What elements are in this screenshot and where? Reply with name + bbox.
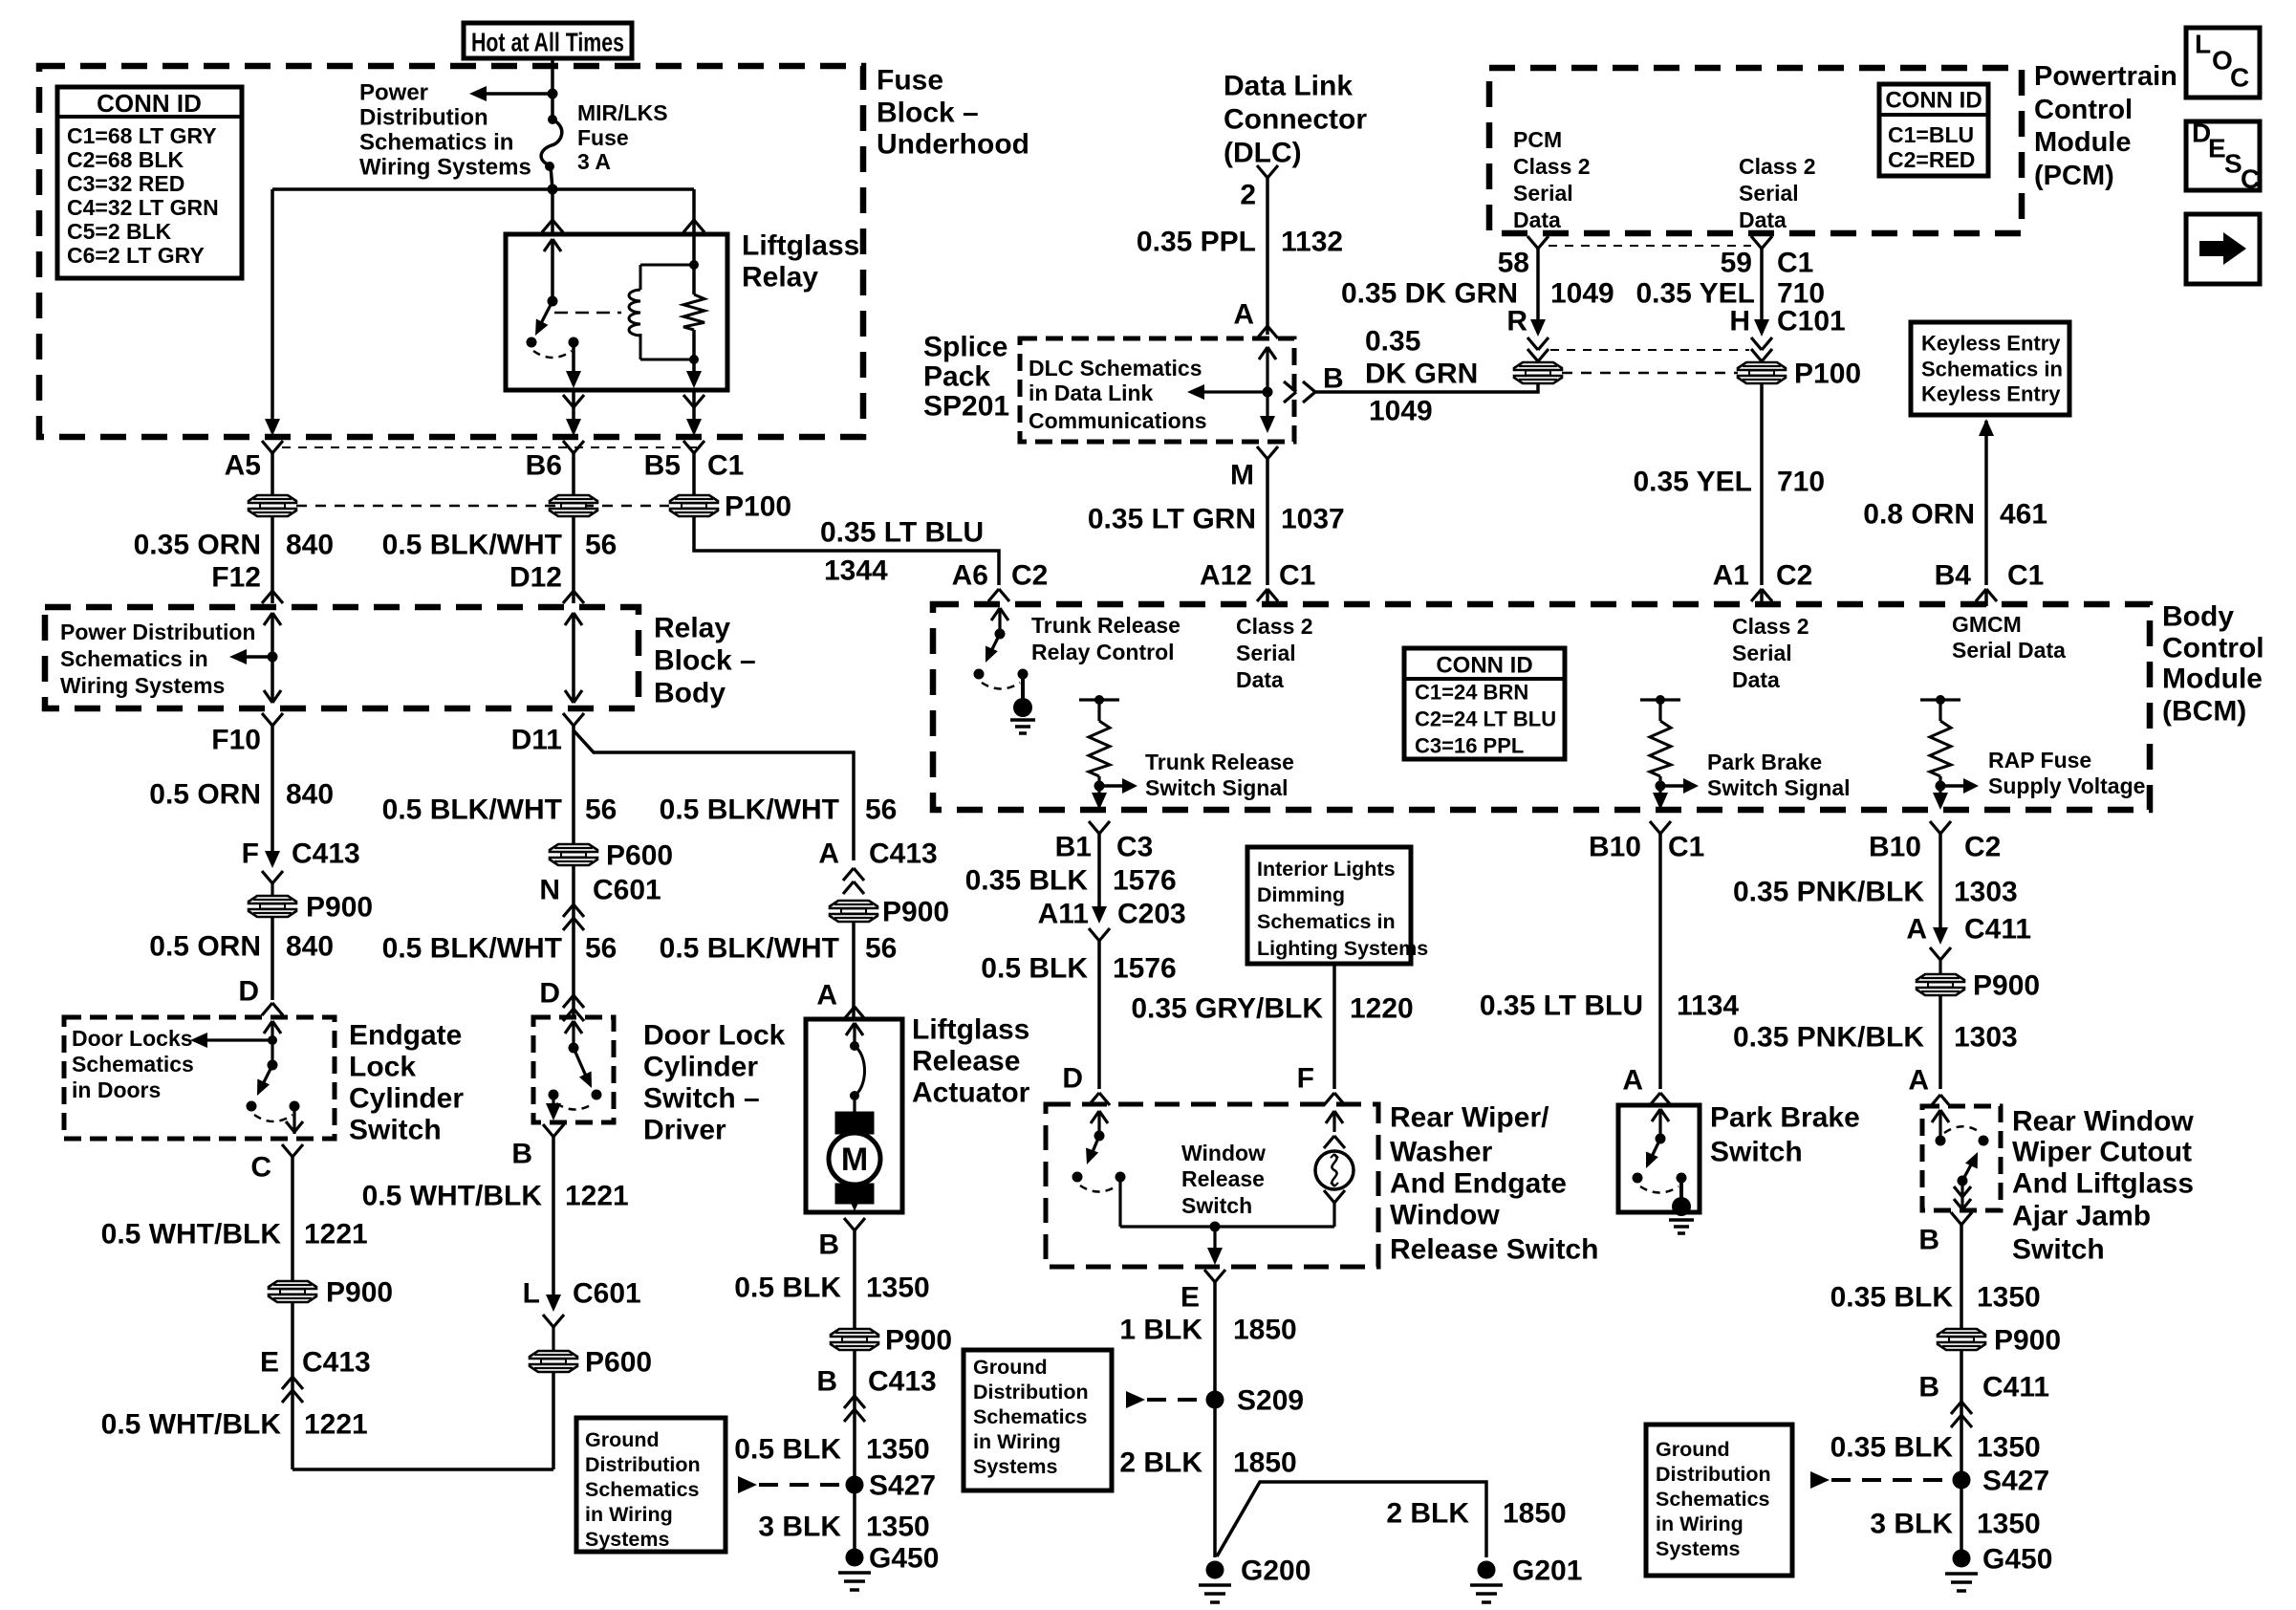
svg-text:Serial: Serial [1732,641,1792,665]
arrow to power distribution reference [469,86,487,101]
svg-text:0.35 BLK: 0.35 BLK [1830,1282,1954,1314]
wire 710 down to BCM [1760,382,1764,585]
window release switch blade [1090,1136,1099,1159]
svg-text:0.5 ORN: 0.5 ORN [149,779,261,811]
connector half A park brake [1650,1093,1660,1105]
svg-text:Rear Window: Rear Window [2012,1106,2194,1138]
svg-text:G201: G201 [1512,1556,1582,1587]
driver switch NO contact [592,1090,602,1100]
arrow into C101 R [1530,319,1546,337]
arrow relay right output [686,371,702,388]
arrow into C101 H [1754,319,1769,337]
svg-text:1132: 1132 [1281,227,1343,258]
svg-text:C413: C413 [292,838,360,870]
svg-text:1303: 1303 [1954,1022,2018,1054]
svg-text:Class 2: Class 2 [1732,614,1809,639]
connector half A actuator [844,1007,855,1019]
svg-text:A: A [816,980,837,1012]
svg-text:Distribution: Distribution [359,105,488,131]
connector half relay input right [683,220,694,232]
svg-text:in Wiring: in Wiring [1656,1512,1744,1535]
svg-text:0.35 LT GRN: 0.35 LT GRN [1088,504,1256,535]
svg-text:Serial: Serial [1513,181,1573,206]
svg-text:0.35 YEL: 0.35 YEL [1633,467,1752,498]
svg-text:Keyless Entry: Keyless Entry [1921,382,2061,406]
wire to door locks note [197,1038,272,1041]
ground distribution box center [964,1350,1112,1490]
rear window jamb switch box [1922,1106,2001,1210]
connector half A jamb [1930,1095,1940,1107]
svg-text:1350: 1350 [1977,1509,2041,1540]
wire branch right relay input [692,189,696,233]
wire 1344 LT BLU run [694,515,999,585]
park brake ground ball [1672,1197,1691,1216]
driver switch pivot [569,1043,579,1054]
connector half B5 [683,441,694,453]
svg-text:P900: P900 [306,892,373,924]
driver switch input [565,1021,574,1033]
connector half B10 C2 [1930,821,1940,834]
svg-text:1850: 1850 [1503,1498,1567,1530]
junction window release output [1210,1222,1221,1232]
endgate switch throw arc [254,1115,292,1121]
relay resistor bottom lead [692,330,696,384]
svg-text:Block –: Block – [877,98,979,129]
actuator contact upper [850,1041,859,1051]
svg-text:Liftglass: Liftglass [742,230,859,262]
wire branch D11 to actuator column [574,730,854,860]
window release switch common bus [1120,1225,1334,1228]
svg-text:710: 710 [1777,467,1825,498]
svg-text:Wiring Systems: Wiring Systems [359,155,531,181]
park brake switch ground lead [1679,1178,1683,1201]
svg-text:M: M [841,1142,868,1178]
svg-text:Serial Data: Serial Data [1952,638,2066,663]
svg-text:1134: 1134 [1677,990,1739,1022]
svg-text:0.35 BLK: 0.35 BLK [965,865,1089,897]
arrow into C413 F [265,851,280,868]
window release switch output lead [1118,1177,1121,1227]
svg-text:in Data Link: in Data Link [1029,381,1154,405]
connector halves H C101 [1751,337,1762,350]
svg-text:P600: P600 [606,840,673,872]
svg-text:B10: B10 [1869,832,1921,863]
svg-text:Schematics in: Schematics in [60,646,208,671]
connector halves B C413 [844,1396,855,1408]
svg-text:P900: P900 [326,1277,393,1309]
svg-text:Schematics in: Schematics in [1921,358,2063,381]
svg-text:CONN ID: CONN ID [1436,653,1532,679]
svg-text:Module: Module [2034,127,2132,158]
svg-text:A6: A6 [952,560,988,592]
relay block left pass-through [264,613,272,625]
svg-text:840: 840 [286,779,334,811]
connector halves R C101 [1527,337,1538,350]
svg-text:A5: A5 [225,450,261,482]
bcm trunk relay switch NO contact [1018,669,1029,680]
arrow into keyless box [1979,419,1994,436]
svg-text:Schematics: Schematics [973,1405,1088,1428]
bcm trunk release resistor [1079,698,1119,701]
bcm trunk relay switch input [991,608,1000,620]
svg-text:F10: F10 [211,725,261,756]
connector half A11 C203 [1089,928,1099,941]
bcm internal ground ball a [1013,698,1032,717]
svg-text:(PCM): (PCM) [2034,161,2114,191]
connector half D endgate [262,1003,272,1015]
connector half A6 [988,589,999,601]
svg-text:Systems: Systems [1656,1537,1740,1560]
svg-text:C2=24 LT BLU: C2=24 LT BLU [1415,707,1556,731]
svg-text:Class 2: Class 2 [1236,614,1313,639]
connector halves B C411 [1951,1402,1961,1414]
connector half B jamb [1951,1212,1961,1225]
c101 dashed row [1550,349,1749,351]
driver switch NC contact [549,1090,559,1100]
connector half DLC pin2 [1257,165,1267,178]
svg-text:Washer: Washer [1390,1137,1493,1168]
actuator contact lower [850,1091,859,1100]
endgate switch NC contact [247,1101,257,1112]
actuator input [846,1023,855,1035]
svg-text:1350: 1350 [866,1512,930,1543]
svg-text:S: S [2224,149,2242,179]
park brake switch box [1618,1105,1700,1212]
pcm pin dashed row [1549,245,1751,247]
jamb switch throw arc [1944,1126,1980,1133]
svg-text:840: 840 [286,931,334,963]
svg-text:M: M [1230,460,1254,491]
svg-text:C4=32 LT GRN: C4=32 LT GRN [67,195,219,220]
wire H to P100 [1760,361,1763,363]
svg-text:And Liftglass: And Liftglass [2012,1168,2194,1200]
splice S427 left [846,1476,864,1494]
svg-text:0.5 WHT/BLK: 0.5 WHT/BLK [101,1219,282,1251]
connector half B driver [543,1124,553,1137]
svg-text:Switch Signal: Switch Signal [1145,775,1289,800]
svg-text:Schematics: Schematics [585,1478,700,1501]
svg-text:0.5 BLK/WHT: 0.5 BLK/WHT [382,794,562,826]
relay coil bottom lead [639,334,642,359]
rear wiper window release switch box [1046,1104,1378,1267]
relay coil L1 [629,290,640,336]
svg-text:A: A [1906,914,1927,946]
ground G200 [1206,1561,1224,1579]
connector half A C411 [1930,947,1940,960]
svg-text:2 BLK: 2 BLK [1119,1447,1202,1479]
svg-text:0.5 ORN: 0.5 ORN [149,931,261,963]
arrow to power dist note relay block [229,649,247,664]
splice S209 [1206,1391,1224,1409]
svg-text:Ground: Ground [1656,1438,1730,1461]
arrow into C203 A11 [1092,906,1107,924]
svg-text:1037: 1037 [1281,504,1345,535]
relay coil top lead [640,264,694,267]
svg-text:F12: F12 [211,562,261,594]
svg-text:B10: B10 [1589,832,1641,863]
svg-text:Ground: Ground [973,1356,1048,1379]
wire 1303 to jamb switch [1939,994,1942,1089]
fuse block underhood module box [39,66,863,437]
svg-text:Splice: Splice [923,332,1007,363]
window release lamp connector half [1324,1136,1334,1148]
connector half F12 [262,591,272,603]
svg-text:F: F [242,838,259,870]
svg-text:0.5 BLK: 0.5 BLK [734,1273,841,1304]
svg-text:56: 56 [865,794,897,826]
wire 1220 GRY/BLK [1332,964,1336,1089]
arrow endgate output [286,1121,294,1132]
window release lamp [1315,1151,1354,1189]
keyless entry reference box [1911,322,2069,415]
svg-text:C2=RED: C2=RED [1888,147,1975,172]
svg-text:58: 58 [1498,248,1529,279]
dashed leader to S427 right [1810,1471,1830,1489]
dashed leader to S209 [1126,1391,1145,1408]
connector half A1 [1751,589,1762,601]
svg-text:G200: G200 [1241,1556,1310,1587]
connector P100 pass-through B5 [670,495,718,503]
svg-text:Data: Data [1513,207,1561,232]
svg-text:Release: Release [912,1046,1020,1077]
svg-text:Switch: Switch [1181,1193,1252,1218]
svg-text:C1: C1 [1668,832,1704,863]
svg-text:Supply Voltage: Supply Voltage [1988,773,2145,798]
window release switch NC contact [1072,1172,1083,1183]
svg-text:N: N [539,875,560,906]
svg-text:P900: P900 [1994,1325,2061,1357]
svg-text:C2=68 BLK: C2=68 BLK [67,147,184,172]
svg-text:Fuse: Fuse [877,65,943,97]
svg-text:C6=2 LT GRY: C6=2 LT GRY [67,243,205,268]
svg-text:Interior Lights: Interior Lights [1257,858,1396,881]
svg-text:Block –: Block – [654,645,756,677]
svg-text:Fuse: Fuse [577,125,629,150]
junction relay coil/resistor top [689,260,699,270]
svg-text:C3: C3 [1116,832,1153,863]
endgate switch NO contact [290,1101,300,1112]
svg-text:Schematics: Schematics [1656,1488,1770,1511]
svg-text:0.5 BLK/WHT: 0.5 BLK/WHT [660,794,839,826]
door lock cylinder switch driver box [533,1017,614,1122]
svg-text:Switch: Switch [2012,1234,2105,1266]
svg-text:SP201: SP201 [923,391,1009,423]
svg-text:0.35: 0.35 [1365,326,1420,358]
svg-text:C1=BLU: C1=BLU [1888,122,1974,147]
svg-text:E: E [260,1347,279,1379]
window release switch input [1091,1111,1099,1123]
wire 56 to actuator [852,921,856,1017]
arrow relay switch output [566,371,581,388]
svg-text:Communications: Communications [1029,408,1207,433]
jamb switch NO contact [1979,1136,1989,1146]
svg-text:G450: G450 [1982,1544,2052,1576]
svg-text:1303: 1303 [1954,877,2018,908]
relay block body module box [45,607,639,708]
wire 461 ORN up to keyless box [1984,421,1988,585]
connector half B actuator [844,1218,855,1230]
relay mechanical link [554,312,621,315]
svg-text:0.5 BLK: 0.5 BLK [981,953,1088,985]
svg-text:1221: 1221 [565,1181,629,1212]
connector half pcm 59 [1751,236,1762,249]
svg-text:Module: Module [2162,664,2263,695]
svg-text:3 BLK: 3 BLK [758,1512,841,1543]
svg-text:(BCM): (BCM) [2162,696,2246,728]
ground distribution box left [576,1418,726,1552]
endgate switch input [264,1021,272,1033]
svg-text:C203: C203 [1117,899,1186,930]
svg-text:C3=32 RED: C3=32 RED [67,171,184,196]
liftglass relay box [506,234,727,390]
junction node fuse output [548,185,558,195]
actuator motor M1 body [829,1133,880,1185]
svg-text:Distribution: Distribution [973,1381,1089,1403]
svg-text:CONN ID: CONN ID [97,89,202,118]
svg-text:2 BLK: 2 BLK [1386,1498,1469,1530]
svg-text:Class 2: Class 2 [1739,154,1816,179]
driver switch blade [574,1048,588,1080]
svg-text:D: D [238,976,259,1008]
svg-text:Distribution: Distribution [585,1453,701,1476]
svg-text:Hot at All Times: Hot at All Times [471,28,624,57]
svg-text:Schematics: Schematics [72,1052,194,1077]
junction node SP201 [1263,387,1273,398]
relay switch pivot [548,296,558,307]
pcm module box [1489,68,2022,233]
ground distribution box right [1646,1425,1792,1576]
svg-text:Data: Data [1739,207,1787,232]
svg-text:Power: Power [359,80,428,106]
svg-text:Serial: Serial [1236,641,1296,665]
svg-text:A11: A11 [1038,899,1089,930]
wire to power dist note relay block [236,655,272,659]
svg-text:And Endgate: And Endgate [1390,1168,1567,1200]
connector half B6 internal [563,395,574,407]
connector half C413 F [262,871,272,883]
svg-text:1049: 1049 [1369,396,1433,427]
svg-text:E: E [1180,1282,1200,1314]
svg-text:0.35 GRY/BLK: 0.35 GRY/BLK [1131,993,1323,1025]
svg-text:C5=2 BLK: C5=2 BLK [67,219,172,244]
svg-text:Endgate: Endgate [349,1020,462,1052]
svg-text:DLC Schematics: DLC Schematics [1029,356,1202,381]
svg-text:Park Brake: Park Brake [1710,1102,1860,1134]
svg-text:3 BLK: 3 BLK [1870,1509,1953,1540]
svg-text:Rear Wiper/: Rear Wiper/ [1390,1102,1549,1134]
connector half L C601 [543,1315,553,1327]
splice S427 right [1953,1471,1971,1490]
connector halves D driver [563,995,574,1008]
connector P600 pass-through N [550,844,597,852]
connector P900 pass-through jamb [1938,1329,1985,1337]
connector P100 pass-through H [1738,362,1786,370]
svg-text:in Wiring: in Wiring [973,1430,1061,1453]
actuator motor M1 top terminal [853,1096,856,1114]
svg-text:1576: 1576 [1113,953,1177,985]
svg-text:1350: 1350 [1977,1282,2041,1314]
connector half M [1257,446,1267,459]
relay block right pass-through [565,613,574,625]
svg-text:1220: 1220 [1350,993,1414,1025]
svg-text:P900: P900 [1973,970,2040,1002]
connector halves B splice [1284,381,1296,392]
loc box [2186,28,2260,98]
svg-text:B: B [1918,1372,1939,1403]
svg-text:C: C [250,1152,271,1184]
relay switch NC contact [527,337,537,348]
svg-text:P900: P900 [885,1325,952,1357]
svg-text:56: 56 [865,933,897,965]
relay resistor R1 lead [692,234,696,294]
window release switch arc [1080,1186,1117,1192]
bcm trunk relay switch arc [982,683,1020,689]
conn id table pcm [1879,84,1988,176]
endgate switch blade [260,1065,272,1090]
svg-text:0.35 LT BLU: 0.35 LT BLU [820,517,984,549]
svg-text:S209: S209 [1237,1385,1304,1417]
svg-text:DK GRN: DK GRN [1365,359,1478,390]
relay switch NO contact [569,337,579,348]
svg-text:840: 840 [286,530,334,561]
svg-text:Switch: Switch [1710,1137,1803,1168]
svg-text:H: H [1729,306,1750,337]
svg-text:Dimming: Dimming [1257,883,1345,906]
fuse MIR/LKS F1 [548,115,557,124]
svg-text:1350: 1350 [866,1434,930,1466]
svg-text:B: B [1323,363,1344,395]
svg-text:0.35 BLK: 0.35 BLK [1830,1432,1954,1464]
svg-text:Relay: Relay [654,613,730,644]
conn id table bcm [1404,648,1565,759]
wire 840 segment A5-F12 [271,515,274,603]
svg-text:B: B [511,1139,532,1170]
svg-text:Data: Data [1236,667,1284,692]
svg-text:Systems: Systems [973,1455,1057,1478]
wire 840 segment below P900 [271,916,274,1000]
svg-text:PCM: PCM [1513,127,1562,152]
bcm internal ground symbol a [1010,718,1035,722]
svg-text:Power Distribution: Power Distribution [60,620,255,644]
svg-text:A: A [1622,1065,1643,1097]
wire to dlc schematics note [1194,390,1267,393]
connector half B6 [563,441,574,453]
svg-text:461: 461 [2000,499,2047,531]
connector half B1 [1089,821,1099,834]
svg-text:C101: C101 [1777,306,1846,337]
svg-text:in Doors: in Doors [72,1077,161,1102]
driver switch output [552,1095,554,1115]
svg-text:C411: C411 [1982,1372,2049,1403]
svg-text:0.8 ORN: 0.8 ORN [1863,499,1975,531]
svg-text:0.5 BLK/WHT: 0.5 BLK/WHT [382,530,562,561]
relay switch input arm [544,239,552,251]
arrow window release output [1207,1248,1223,1265]
svg-text:Release: Release [1181,1166,1265,1191]
svg-text:Data: Data [1732,667,1780,692]
svg-text:D: D [1062,1063,1083,1095]
svg-text:Door Locks: Door Locks [72,1026,193,1051]
park brake switch arc [1640,1186,1679,1193]
svg-text:A: A [818,838,839,870]
svg-text:C2: C2 [1011,560,1048,592]
svg-text:G450: G450 [869,1543,939,1575]
connector half D11 [563,713,574,726]
svg-text:0.5 BLK/WHT: 0.5 BLK/WHT [382,933,562,965]
svg-text:Lock: Lock [349,1052,416,1083]
dashed leader to S427 left [738,1476,757,1493]
bcm trunk relay switch NC contact [974,669,985,680]
